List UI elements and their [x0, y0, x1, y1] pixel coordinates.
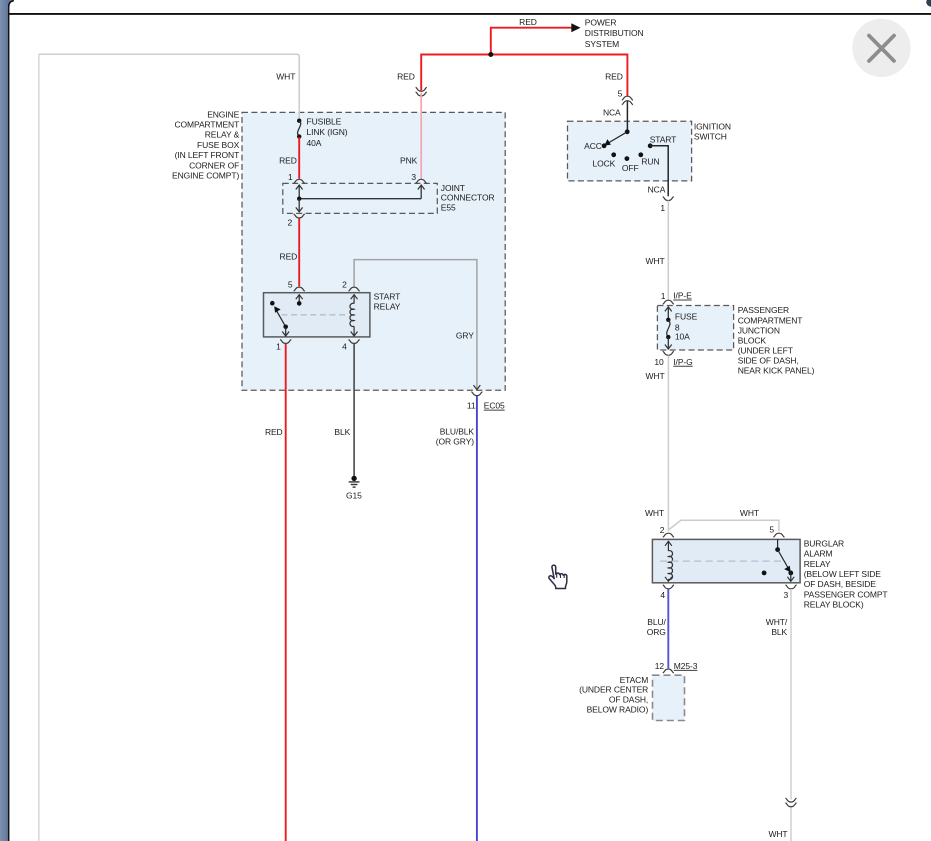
svg-text:12: 12: [655, 661, 665, 671]
svg-text:1: 1: [276, 341, 281, 351]
ignition switch pivot node: [625, 129, 630, 134]
red branch to power distribution arrow: [491, 28, 572, 55]
inline connector right leg: [622, 96, 633, 100]
joint connector E55 bus pin 1 leg: [296, 185, 303, 190]
svg-text:M25-3: M25-3: [674, 661, 698, 671]
svg-text:NCA: NCA: [603, 107, 621, 117]
svg-text:ETACM: ETACM: [620, 675, 649, 685]
inline connector left leg: [416, 87, 427, 91]
connector at ignition pin 1: [663, 197, 674, 201]
svg-text:BELOW RADIO): BELOW RADIO): [587, 704, 649, 714]
svg-text:2: 2: [342, 280, 347, 290]
start relay coil: [351, 295, 358, 300]
NCA black wire into ignition: [626, 101, 628, 132]
svg-text:(BELOW LEFT SIDE: (BELOW LEFT SIDE: [804, 569, 882, 579]
connector at relay pin 2: [663, 533, 674, 537]
svg-text:10: 10: [654, 357, 664, 367]
svg-text:JUNCTION: JUNCTION: [738, 325, 780, 335]
svg-text:PNK: PNK: [400, 155, 418, 165]
svg-text:RED: RED: [280, 251, 298, 261]
joint connector E55 bus bar: [299, 198, 421, 200]
top black rule: [8, 13, 931, 15]
dark blob top-right corner: [926, 0, 931, 7]
start relay switch common stub pin 5: [296, 295, 303, 300]
svg-text:ENGINE: ENGINE: [207, 109, 239, 119]
svg-text:RELAY BLOCK): RELAY BLOCK): [804, 600, 864, 610]
svg-text:4: 4: [660, 590, 665, 600]
wire contact to relay pin 3: [790, 573, 792, 581]
connector at joint connector pin 3: [416, 179, 427, 183]
RED wire joint connector to start relay: [298, 218, 300, 286]
svg-text:2: 2: [288, 218, 293, 228]
svg-text:WHT: WHT: [646, 371, 665, 381]
start relay switch arm: [276, 309, 286, 327]
passenger compartment junction block: [657, 306, 733, 351]
svg-text:FUSIBLE: FUSIBLE: [307, 116, 342, 126]
svg-text:ALARM: ALARM: [804, 549, 833, 559]
svg-text:DISTRIBUTION: DISTRIBUTION: [585, 28, 644, 38]
joint connector E55 bus pin 3 leg: [418, 185, 425, 190]
svg-text:PASSENGER: PASSENGER: [738, 305, 789, 315]
svg-text:JOINT: JOINT: [441, 183, 465, 193]
WHT/BLK wire: [790, 589, 792, 800]
start relay NC contact: [270, 301, 275, 306]
svg-text:FUSE BOX: FUSE BOX: [197, 140, 240, 150]
svg-text:RED: RED: [519, 17, 537, 27]
page left black border with rounded top corner: [8, 0, 13, 9]
joint connector E55 bus pin 2 leg: [298, 199, 300, 212]
svg-text:RELAY: RELAY: [804, 559, 831, 569]
svg-text:PASSENGER COMPT: PASSENGER COMPT: [804, 589, 888, 599]
svg-text:LOCK: LOCK: [593, 159, 616, 169]
connector at start relay pin 2: [349, 287, 360, 291]
svg-text:OFF: OFF: [622, 163, 639, 173]
svg-text:1: 1: [660, 203, 665, 213]
WHT wire junction block to relay: [667, 355, 669, 531]
svg-text:LINK (IGN): LINK (IGN): [307, 127, 348, 137]
svg-text:SIDE OF DASH,: SIDE OF DASH,: [738, 356, 799, 366]
WHT branch wire to relay pin 5: [668, 520, 779, 531]
connector at relay pin 4: [663, 585, 674, 589]
svg-text:POWER: POWER: [585, 18, 617, 28]
svg-text:SYSTEM: SYSTEM: [585, 39, 619, 49]
svg-text:BLK: BLK: [771, 627, 787, 637]
burglar alarm relay NO contact to pin 3: [788, 571, 793, 576]
connector at joint connector pin 2: [294, 214, 305, 218]
svg-text:CORNER OF: CORNER OF: [189, 160, 239, 170]
BLU/BLK long wire: [476, 396, 478, 841]
svg-text:5: 5: [618, 88, 623, 98]
svg-text:RUN: RUN: [641, 156, 659, 166]
burglar alarm relay coil: [665, 541, 672, 546]
wire START contact to ignition pin 1: [650, 146, 668, 197]
connector at start relay pin 1: [280, 340, 291, 344]
close button: [852, 19, 910, 77]
svg-text:1: 1: [288, 172, 293, 182]
svg-text:WHT: WHT: [646, 256, 665, 266]
svg-text:BLU/: BLU/: [647, 617, 666, 627]
connector at relay pin 3: [785, 585, 796, 589]
svg-text:1: 1: [661, 291, 666, 301]
svg-text:40A: 40A: [307, 138, 322, 148]
svg-text:BLOCK: BLOCK: [738, 335, 767, 345]
svg-text:WHT/: WHT/: [766, 617, 788, 627]
RUN contact: [638, 152, 643, 157]
svg-text:GRY: GRY: [456, 330, 474, 340]
GRY wire: [354, 260, 477, 389]
svg-text:FUSE: FUSE: [675, 311, 698, 321]
burglar alarm relay switch common from pin 5: [777, 539, 779, 549]
svg-text:RED: RED: [279, 155, 297, 165]
svg-text:2: 2: [660, 525, 665, 535]
svg-text:3: 3: [411, 172, 416, 182]
svg-text:WHT: WHT: [740, 508, 759, 518]
ignition switch wiper arm to ACC: [607, 132, 627, 144]
connector EC05 pin 11: [471, 392, 482, 396]
svg-text:OF DASH, BESIDE: OF DASH, BESIDE: [804, 579, 877, 589]
start relay box: [264, 293, 370, 337]
svg-text:WHT: WHT: [645, 508, 664, 518]
burglar alarm relay NC contact: [762, 571, 767, 576]
BLK wire to ground: [353, 344, 355, 476]
burglar alarm relay armature dashed link: [660, 560, 785, 562]
svg-text:I/P-G: I/P-G: [673, 357, 692, 367]
svg-text:BLK: BLK: [334, 427, 350, 437]
WHT wire from frame corner to fusible link: [39, 54, 299, 120]
burglar alarm relay box: [652, 539, 800, 582]
connector at junction block pin 10: [663, 351, 674, 355]
engine box: fusible link: [297, 119, 301, 123]
ground G15 symbol: [351, 476, 356, 481]
svg-text:WHT: WHT: [768, 829, 787, 839]
RED long wire: [285, 344, 287, 841]
svg-text:5: 5: [769, 525, 774, 535]
svg-text:EC05: EC05: [484, 401, 505, 411]
fuse 8 10A element: [665, 307, 672, 312]
hand cursor: [549, 565, 567, 588]
svg-text:RED: RED: [265, 427, 283, 437]
junction dot: [488, 52, 493, 57]
start relay armature dashed link: [282, 314, 348, 316]
red power bus: [421, 55, 627, 97]
LOCK contact: [611, 152, 616, 157]
connector at joint connector pin 1: [294, 179, 305, 183]
svg-text:NEAR KICK PANEL): NEAR KICK PANEL): [738, 366, 815, 376]
svg-text:RELAY: RELAY: [374, 302, 401, 312]
svg-text:WHT: WHT: [276, 72, 295, 82]
PNK wire: [420, 93, 422, 179]
svg-text:G15: G15: [346, 490, 362, 500]
connector at relay pin 5: [773, 533, 784, 537]
joint connector bus junction: [297, 197, 301, 201]
svg-text:(UNDER LEFT: (UNDER LEFT: [738, 345, 793, 355]
connector at start relay pin 5: [294, 287, 305, 291]
OFF contact: [625, 156, 630, 161]
start relay contact to pin 1: [283, 325, 288, 330]
BLU/ORG wire: [667, 589, 669, 668]
START contact: [648, 143, 653, 148]
svg-text:ENGINE COMPT): ENGINE COMPT): [172, 171, 239, 181]
ignition switch box: [568, 121, 692, 181]
svg-text:BLU/BLK: BLU/BLK: [440, 427, 475, 437]
svg-text:10A: 10A: [675, 332, 690, 342]
svg-text:(OR GRY): (OR GRY): [436, 437, 475, 447]
inline connector on WHT/BLK wire: [785, 798, 796, 802]
connector at junction block pin 1: [663, 300, 674, 304]
svg-text:ACC: ACC: [584, 141, 602, 151]
svg-text:NCA: NCA: [648, 184, 666, 194]
svg-text:I/P-E: I/P-E: [673, 291, 692, 301]
svg-text:(UNDER CENTER: (UNDER CENTER: [579, 685, 648, 695]
connector at start relay pin 4: [349, 340, 360, 344]
svg-text:11: 11: [467, 401, 476, 411]
svg-text:E55: E55: [441, 202, 456, 212]
joint connector E55 box: [283, 183, 438, 213]
ACC contact: [602, 143, 607, 148]
svg-text:ORG: ORG: [647, 627, 666, 637]
ETACM box: [653, 675, 685, 720]
svg-text:OF DASH,: OF DASH,: [609, 695, 648, 705]
svg-text:COMPARTMENT: COMPARTMENT: [174, 120, 239, 130]
svg-text:RED: RED: [605, 72, 623, 82]
svg-text:COMPARTMENT: COMPARTMENT: [738, 315, 803, 325]
svg-text:IGNITION: IGNITION: [694, 122, 731, 132]
svg-text:3: 3: [784, 590, 789, 600]
svg-text:SWITCH: SWITCH: [694, 132, 727, 142]
WHT wire ignition to junction block: [667, 201, 669, 300]
burglar alarm relay switch arm: [778, 550, 790, 570]
svg-text:START: START: [374, 291, 401, 301]
engine compartment relay & fuse box: [242, 112, 505, 390]
svg-text:RELAY &: RELAY &: [205, 130, 240, 140]
svg-text:5: 5: [288, 280, 293, 290]
left blue edge strip: [0, 0, 9, 841]
svg-text:(IN LEFT FRONT: (IN LEFT FRONT: [175, 150, 240, 160]
svg-text:BURGLAR: BURGLAR: [804, 538, 844, 548]
RED wire to joint connector pin 1: [298, 137, 300, 179]
svg-text:START: START: [650, 135, 677, 145]
arrowhead power distribution: [571, 23, 580, 32]
svg-text:4: 4: [342, 341, 347, 351]
connector M25-3 at ETACM pin 12: [663, 669, 674, 673]
svg-text:RED: RED: [397, 72, 415, 82]
svg-text:CONNECTOR: CONNECTOR: [441, 193, 495, 203]
diagram frame left border: [38, 54, 40, 841]
